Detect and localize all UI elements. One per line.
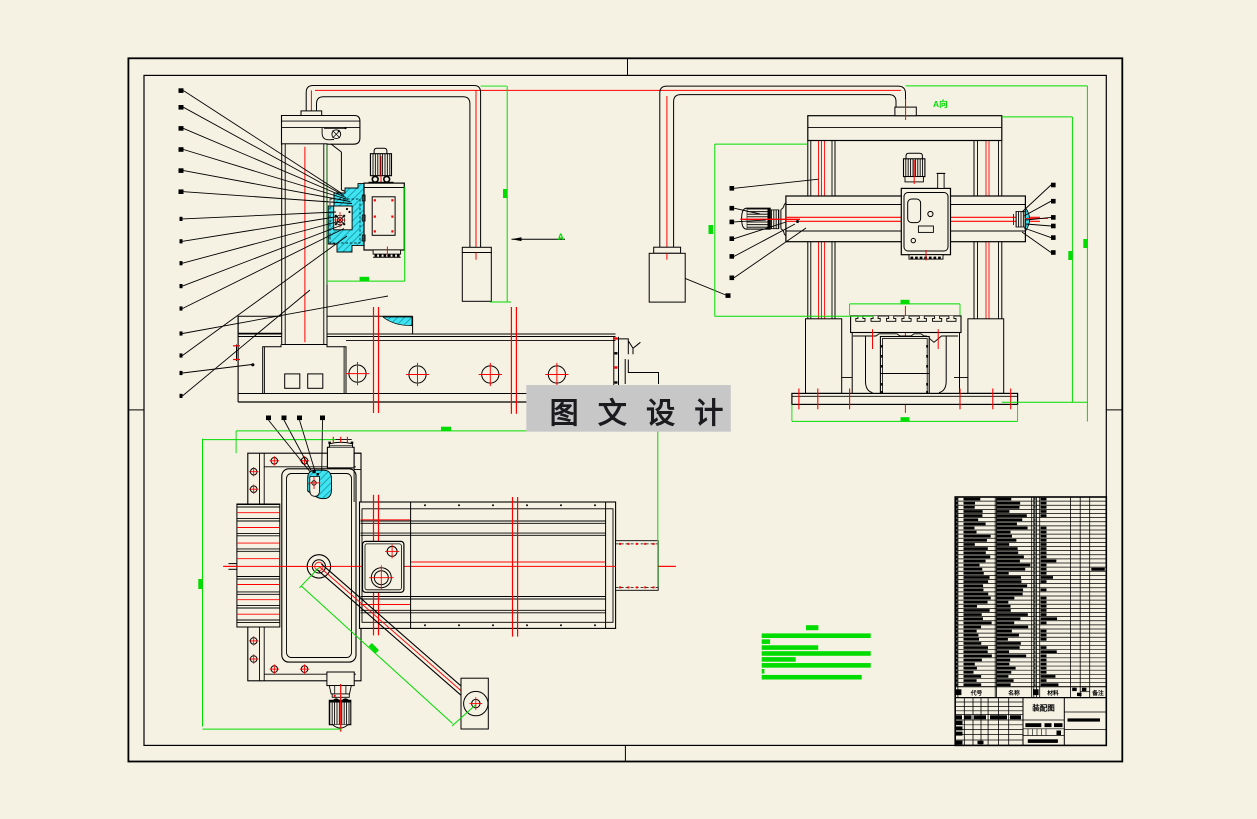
plan view: arm end circle <box>464 691 488 715</box>
plan view: clamp red crosshair <box>309 482 321 484</box>
left view: head side tabs <box>362 195 365 201</box>
left view: leader squares and lines <box>179 88 184 93</box>
right view: table right leg <box>939 333 960 394</box>
plan view: cyan clamp blob <box>308 470 332 499</box>
plan view: cylinder flange line <box>410 502 412 628</box>
left view: head green extension line left <box>326 145 328 285</box>
right view: column pedestals <box>806 319 842 394</box>
plan view: clamp inner white U <box>310 477 320 497</box>
left view: spindle head box <box>364 183 404 250</box>
right view: green dim right inner <box>1071 117 1073 402</box>
right view: counterweight cap <box>654 247 681 253</box>
left view: counterweight box cap <box>462 247 491 252</box>
plan view: knob red dot <box>334 695 336 697</box>
right view: top beam <box>808 116 1002 141</box>
technical requirements title <box>806 625 818 630</box>
right view: head motor red line <box>913 160 915 184</box>
svg-text:名称: 名称 <box>1008 689 1020 697</box>
left view: slide window <box>334 206 352 230</box>
left view: motor feet <box>372 176 378 182</box>
plan view: nose neck trapezoid <box>329 686 351 694</box>
left view: red section pair B <box>510 307 512 414</box>
plan view: knob ring <box>332 694 349 697</box>
technical requirements lines <box>762 633 871 638</box>
parts list purchased remark <box>1091 568 1105 571</box>
right view: feed motor body <box>747 208 771 229</box>
plan view: shaft end nub <box>616 541 659 591</box>
plan view: red pair C <box>512 497 514 637</box>
left view: red section pair A <box>373 307 375 413</box>
plan view: spindle nose top box <box>327 447 354 468</box>
right view: conduit pipe <box>660 86 906 248</box>
left view: column body <box>282 144 327 345</box>
left view: leader end dot <box>251 363 254 366</box>
plan view: rib centerline stub <box>229 563 237 565</box>
watermark box <box>526 385 731 432</box>
plan view: bracket big bore <box>371 568 391 588</box>
right view: beam nub <box>895 107 916 116</box>
svg-text:图 文 设 计: 图 文 设 计 <box>550 396 730 430</box>
right view: motor bell <box>781 203 786 210</box>
right view: central screw housing <box>880 337 929 400</box>
left view: column top cap <box>282 116 360 145</box>
left view: counterweight box <box>462 253 491 302</box>
right view: green dim above table <box>850 303 960 305</box>
left view: motor cap <box>374 148 387 154</box>
title block revision black dashes <box>956 715 962 719</box>
inner border frame <box>144 75 1106 745</box>
right view: motor flange <box>778 210 780 229</box>
parts list row text blobs <box>956 498 958 501</box>
left view: column cap nub <box>301 111 322 116</box>
plan view: green extension to spindle center <box>203 439 334 441</box>
title block signature marks <box>956 721 963 725</box>
left view: head face plate <box>372 197 395 236</box>
plan view: arm end block <box>461 678 488 729</box>
right view: left leader squares <box>730 186 735 191</box>
left view: bed left edge <box>237 316 239 402</box>
left view: red line in pipe left leg <box>310 90 312 121</box>
left view: bed bottom plate <box>238 393 618 395</box>
plan view: green dims <box>236 430 658 432</box>
left view: cap pulley detail <box>322 128 334 140</box>
left view: base left red ticks <box>236 345 238 362</box>
plan view: cylinder internal lines <box>361 520 606 522</box>
right view: rail end red line <box>1025 217 1048 219</box>
right view: feed motor dark end <box>768 208 771 229</box>
plan view: center boss <box>307 555 330 578</box>
parts list header row <box>955 686 1106 688</box>
left view: bed bolt hole 3 <box>482 366 499 383</box>
plan view: bracket small bolt <box>387 546 397 556</box>
left view: cable line on column face <box>331 144 341 152</box>
plan view: green dim along arm <box>300 568 319 588</box>
left view: bed top lines <box>238 333 282 335</box>
left view: cyan slide bracket <box>328 184 365 252</box>
right view: machine table with T-slots <box>851 316 961 333</box>
svg-text:A: A <box>558 232 565 242</box>
left view: slideway top left block <box>238 316 281 334</box>
right view: gantry left column <box>807 141 809 319</box>
plan view: knob washers <box>333 698 340 700</box>
left view: head green extension line right <box>404 187 406 281</box>
frame center tick right <box>1106 409 1122 411</box>
left view: head green dimension line <box>327 280 404 282</box>
frame center tick left <box>128 409 144 411</box>
plan view: spindle nose bottom <box>327 672 354 686</box>
right view: head bottom flange <box>909 255 943 259</box>
left view: bed right edge <box>613 336 615 402</box>
parts list table <box>955 497 1106 745</box>
left view: red line in pipe right leg <box>475 90 477 261</box>
plan view: knob red centerline <box>340 684 342 732</box>
left view: slideway top right of column <box>327 315 413 317</box>
svg-text:装配图: 装配图 <box>1031 703 1055 713</box>
left view: tall green dimension line <box>506 86 508 301</box>
left view: motor red centerline <box>380 156 382 182</box>
right view: green dims left <box>714 144 716 316</box>
left view: pedestal under column <box>263 345 346 394</box>
right view: right column red lines <box>985 141 987 331</box>
plan view: knurled knob <box>329 700 351 724</box>
plan view: table right strip <box>354 453 361 469</box>
right view: crossrail <box>786 196 1026 242</box>
plan view: top leader squares <box>266 416 271 421</box>
left view: dashed slide boundary <box>330 199 360 243</box>
title block right cells <box>1064 711 1106 713</box>
left view: bed right edge dots <box>614 337 617 339</box>
right view: right leader squares <box>1051 183 1056 188</box>
right view: green dim below base <box>792 420 1018 422</box>
left view: column red centerline <box>304 147 306 342</box>
right view: beam nub red centerline <box>905 99 907 120</box>
left view: red conduit centerline horizontal <box>315 89 901 91</box>
left view: bed bolt hole 1 <box>349 365 366 382</box>
svg-text:备注: 备注 <box>1091 689 1104 697</box>
right view: head small circle <box>928 211 933 216</box>
left view: cyan chip wedge on slideway <box>383 317 412 326</box>
right view: spindle head box <box>901 188 950 254</box>
plan view: red vertical centerline <box>318 466 320 654</box>
left view: bed right end bracket <box>616 339 641 354</box>
plan view: plate bolt holes <box>271 458 278 465</box>
left view: pedestal window right <box>308 374 323 388</box>
right view: crossrail red centerlines <box>786 216 1040 218</box>
left view: tall green dimension text <box>503 189 508 198</box>
plan view: bracket plate <box>363 541 404 592</box>
left view: section arrow A <box>512 238 566 240</box>
plan view: rib block <box>237 504 280 627</box>
right view: table red centerline <box>904 306 906 413</box>
plan view: cylinder edge dots <box>424 504 426 506</box>
right view: head motor base <box>905 177 923 182</box>
outer border frame <box>128 58 1122 761</box>
plan view: rounded slide cover outer <box>282 469 356 662</box>
title block middle sub-cells <box>1023 719 1064 721</box>
plan view: table plate <box>248 453 361 681</box>
right view: left column red lines <box>818 141 820 331</box>
plan view: cylinder red lines <box>361 519 411 521</box>
plan view: nose cap <box>329 442 352 447</box>
left view: head flange red tick <box>386 247 388 257</box>
plan view: cylinder body <box>360 502 616 628</box>
right view: motor coupling bellows <box>771 210 779 229</box>
right view: head small rect <box>918 226 933 232</box>
plan view: rounded slide cover inner <box>287 474 352 658</box>
right view: feed motor cap <box>742 208 747 229</box>
right view: crossrail inner red centerline <box>786 216 1026 218</box>
right view: feed motor red centerline <box>740 218 800 220</box>
plan view: red pair D <box>373 495 375 636</box>
plan view: cylinder right cap <box>605 502 607 628</box>
right view: base plate <box>792 393 1018 404</box>
right view: red line in pipe left leg <box>666 96 668 256</box>
plan view: plate inner horizontals <box>264 466 356 468</box>
right view: counterweight box <box>649 253 685 302</box>
svg-text:代号: 代号 <box>970 689 983 697</box>
left view: bed bolt hole 4 <box>548 366 565 383</box>
left view: bed bolt hole 2 <box>409 366 426 383</box>
right view: rail right end cyan <box>1025 208 1029 232</box>
right view: head window <box>908 199 921 223</box>
right view: leader end dot <box>796 220 799 223</box>
right view: green dim right outer <box>1086 86 1088 422</box>
right view: head motor body <box>904 159 925 177</box>
plan view: red horizontal centerline <box>223 565 676 567</box>
frame center tick bottom <box>624 745 626 761</box>
right view: base red ticks <box>798 389 800 410</box>
plan view: nose top markers <box>334 439 352 441</box>
right view: rail end screw detail <box>1016 212 1025 228</box>
right view: small cylinder <box>938 173 944 188</box>
right view: table left leg <box>852 333 872 394</box>
svg-text:材料: 材料 <box>1046 689 1059 697</box>
plan view: swing arm <box>321 564 478 701</box>
right view: head motor cap <box>906 153 922 159</box>
left view: conduit pipe from column top <box>306 86 480 248</box>
title block <box>955 697 1106 699</box>
right view: gantry right column <box>973 141 975 319</box>
frame center tick top <box>627 58 629 75</box>
right view: head lower circle <box>911 238 915 242</box>
svg-text:A向: A向 <box>933 99 948 109</box>
right view: leader from counterweight <box>685 278 727 295</box>
left view: motor body <box>370 154 391 176</box>
left view: slide mechanism detail <box>337 217 342 222</box>
plan view: swing arm red centerline <box>319 566 476 703</box>
left view: pedestal window left <box>285 374 300 388</box>
left view: head dimension text blob <box>360 277 370 282</box>
right view: under-table profile <box>853 334 958 343</box>
left view: head bottom flange <box>373 250 401 254</box>
